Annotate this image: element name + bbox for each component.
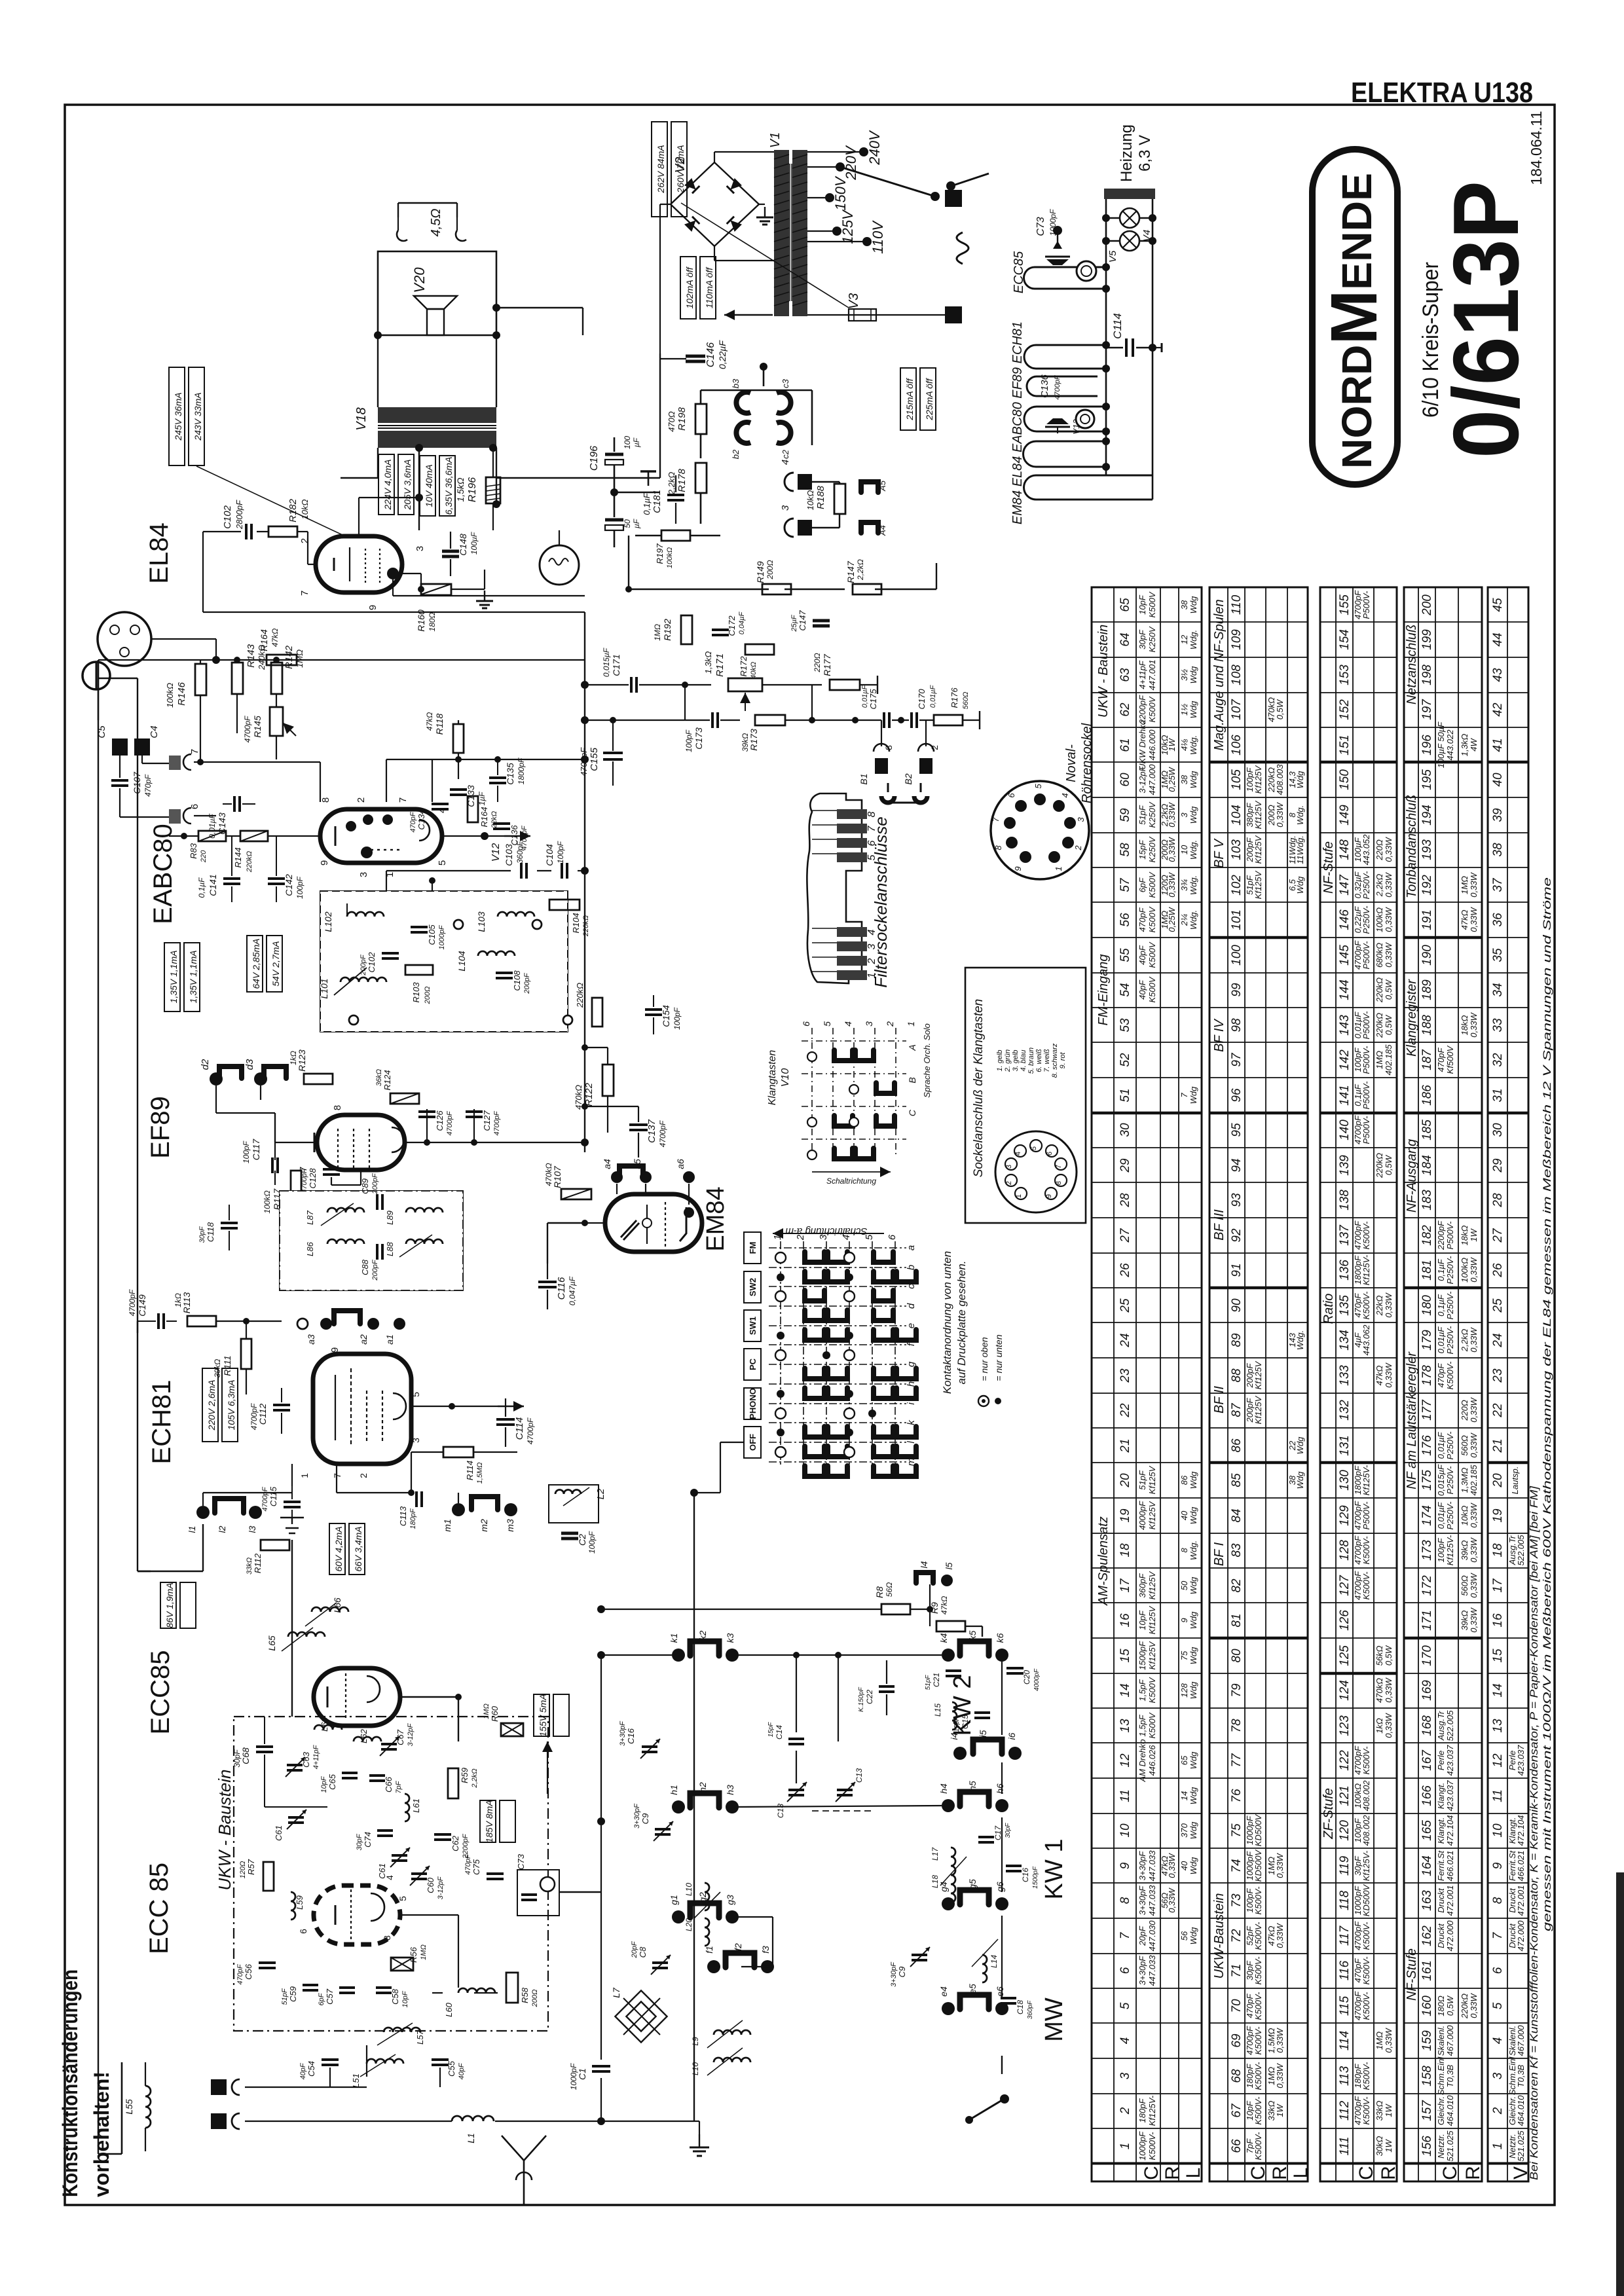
svg-text:K500V: K500V [1147,1712,1157,1738]
svg-text:12: 12 [1179,634,1189,644]
capacitor C136 4700pF [493,822,510,825]
capacitor C147 25uF [813,619,830,623]
svg-text:117: 117 [1338,1925,1352,1946]
svg-text:0,33W: 0,33W [1469,1256,1479,1282]
matrix contact [896,1427,916,1437]
svg-text:k6: k6 [995,1633,1005,1643]
svg-text:P250V-: P250V- [1445,1501,1455,1530]
svg-text:R149: R149 [755,561,766,583]
svg-text:30pF: 30pF [356,1833,363,1850]
svg-text:188: 188 [1420,1015,1434,1036]
svg-text:34: 34 [1491,983,1505,996]
cathode lamp circle [540,545,579,585]
svg-text:NF-Stufe: NF-Stufe [1405,1948,1419,2001]
svg-text:97: 97 [1230,1052,1244,1067]
svg-text:9: 9 [1045,1194,1053,1198]
resistor R147 2,2k [853,584,881,594]
svg-text:PC: PC [748,1358,758,1370]
svg-text:C102: C102 [367,952,377,973]
svg-text:1MΩ: 1MΩ [483,1704,490,1719]
transformer V1 core [789,164,790,301]
svg-text:168: 168 [1420,1715,1434,1736]
capacitor C56 470pF [259,1961,276,1964]
svg-text:124: 124 [1338,1680,1352,1701]
svg-text:R60: R60 [490,1705,500,1722]
matrix solder dot [868,1410,876,1417]
matrix contact [828,1271,847,1282]
svg-text:200pF: 200pF [371,1259,379,1281]
matrix contact [874,1310,893,1321]
svg-text:53: 53 [1118,1018,1132,1032]
svg-text:71: 71 [1230,1963,1244,1977]
capacitor C103 360pF [520,863,523,879]
svg-text:109: 109 [1230,629,1244,650]
svg-text:470pF: 470pF [464,1853,472,1874]
coil L65 [288,1632,325,1637]
svg-text:150V: 150V [832,175,849,211]
speaker V20 box [378,251,496,335]
noval pin 3 [1004,817,1016,829]
ferrite antenna L7 [615,1990,667,2042]
contact c3 [777,392,791,413]
svg-text:R198: R198 [676,407,688,431]
heater loop EABC80 [1024,407,1106,431]
svg-text:Netzanschluß: Netzanschluß [1405,625,1419,704]
matrix contact [874,1271,893,1282]
svg-text:39kΩ: 39kΩ [1460,1540,1469,1560]
svg-text:132: 132 [1338,1400,1352,1421]
svg-text:28: 28 [1118,1193,1132,1208]
dial lamp sym 4 [784,473,794,491]
wire ech to kw [202,1524,204,1571]
svg-text:Kf500V: Kf500V [1445,1045,1455,1074]
svg-text:MW: MW [1041,1997,1068,2042]
svg-text:1: 1 [1054,866,1063,871]
svg-text:113: 113 [1338,2066,1352,2086]
svg-text:186: 186 [1420,1085,1434,1106]
potentiometer R145 [270,707,283,736]
capacitor C59 51pF [303,1984,318,1986]
svg-text:18kΩ: 18kΩ [1460,1225,1469,1245]
svg-text:35: 35 [1491,948,1505,962]
svg-text:R57: R57 [246,1859,256,1875]
capacitor C108 200pF [496,972,513,974]
svg-text:447.000: 447.000 [1147,764,1157,795]
measurement 245V [169,367,185,465]
svg-text:100pF: 100pF [1436,1538,1446,1563]
svg-text:98: 98 [1230,1018,1244,1032]
svg-text:184.064.11: 184.064.11 [1528,111,1545,185]
svg-text:15pF: 15pF [1137,839,1147,860]
resistor R113 1kOhm [187,1316,216,1326]
svg-text:470kΩ: 470kΩ [544,1163,553,1186]
svg-text:7: 7 [299,591,310,596]
svg-text:6,35V 36,6mA: 6,35V 36,6mA [443,457,454,515]
wire grid row [169,835,198,837]
coil L61 [405,1794,409,1821]
capacitor C155 4700pF [603,752,623,754]
svg-text:C75: C75 [471,1859,481,1875]
svg-text:93: 93 [1230,1193,1244,1207]
svg-text:260V 70mA: 260V 70mA [675,145,686,193]
klangtasten pin 4 [1014,1145,1026,1157]
svg-text:ZF-Stufe: ZF-Stufe [1321,1788,1336,1840]
svg-text:171: 171 [1420,1610,1434,1631]
svg-text:33kΩ: 33kΩ [246,1558,253,1575]
svg-text:6: 6 [298,1929,308,1934]
svg-text:32: 32 [1491,1053,1505,1067]
svg-text:200pF: 200pF [360,954,367,975]
output transformer core [378,425,496,426]
svg-text:Wdg: Wdg [1189,1647,1198,1665]
svg-text:5: 5 [1033,784,1043,789]
contacts g1 g2 g3 [672,1910,685,1923]
svg-text:NF-Ausgang: NF-Ausgang [1405,1139,1419,1212]
svg-text:3: 3 [1005,1165,1013,1169]
svg-text:40: 40 [1179,1861,1189,1870]
svg-text:14: 14 [1491,1683,1505,1697]
svg-text:C63: C63 [301,1751,311,1768]
svg-text:K500V-: K500V- [1361,1536,1371,1565]
svg-text:0,5W: 0,5W [1445,1995,1455,2016]
matrix solder dot [777,1332,784,1339]
svg-text:1MΩ: 1MΩ [1375,1051,1384,1069]
svg-text:8: 8 [993,845,1003,850]
wire matrix to nf [720,1442,744,1443]
svg-text:Kf125V: Kf125V [1147,1465,1157,1494]
svg-text:R111: R111 [222,1355,232,1376]
svg-text:423.037: 423.037 [1445,1745,1455,1776]
svg-text:Wdg.: Wdg. [1189,840,1198,860]
coil L60 [458,1988,495,1993]
svg-text:15: 15 [1491,1649,1505,1663]
piano key 2 [837,956,867,966]
svg-text:139: 139 [1338,1155,1352,1176]
svg-text:L59: L59 [295,1895,304,1910]
svg-text:C115: C115 [268,1486,278,1506]
svg-text:54: 54 [1118,983,1132,996]
wire ech right to em84 [547,1223,548,1264]
svg-text:5: 5 [411,1392,421,1397]
svg-text:R177: R177 [822,653,832,676]
svg-text:C134: C134 [416,809,426,829]
NORDMENDE logo [1312,149,1397,484]
svg-text:R104: R104 [571,913,581,933]
klangtasten pin 7 [1055,1158,1067,1170]
svg-text:470pF: 470pF [1436,1363,1446,1388]
svg-text:P500V-: P500V- [1361,591,1371,619]
svg-text:Wdg: Wdg [1189,1787,1198,1805]
matrix contact [874,1446,893,1457]
coil L9 L10b [714,2030,750,2035]
svg-text:10: 10 [1118,1823,1132,1838]
svg-text:C141: C141 [208,874,218,896]
mains tap 150V [807,197,830,198]
svg-text:3¾: 3¾ [1179,879,1189,891]
capacitor C154 100pF [645,1008,662,1011]
svg-text:Wdg: Wdg [1189,1857,1198,1875]
svg-text:C126: C126 [435,1110,445,1131]
svg-text:Wdg: Wdg [1189,701,1198,719]
svg-text:3: 3 [864,1021,874,1027]
svg-text:L10: L10 [684,1883,693,1896]
svg-text:P500V-: P500V- [1361,1011,1371,1040]
capacitor C105 1000pF [411,926,428,928]
svg-text:1MΩ: 1MΩ [1460,876,1469,894]
svg-text:130: 130 [1338,1470,1352,1491]
tube ECC85 lower triode [314,1886,400,1944]
svg-text:d3: d3 [244,1059,255,1070]
capacitor C102 2800pF [245,524,248,539]
svg-text:UKW - Baustein: UKW - Baustein [215,1770,234,1891]
svg-text:224V 4,0mA: 224V 4,0mA [382,459,393,510]
wire lower psu [686,589,687,615]
matrix via [775,1252,786,1263]
svg-text:0,33W: 0,33W [1384,1677,1393,1702]
matrix contact [805,1271,824,1282]
svg-text:20: 20 [1118,1473,1132,1488]
svg-text:470pF: 470pF [236,1963,244,1984]
parts table group 1 (UKW-Baustein / FM-Eingang / AM-Spulensatz, C R L rows 1-65) [1092,587,1202,2164]
resistor R123 1kOhm [304,1074,333,1084]
svg-text:C66: C66 [384,1776,394,1793]
svg-text:f3: f3 [760,1946,771,1954]
svg-text:3: 3 [358,872,369,877]
svg-text:120Ω: 120Ω [239,1861,247,1879]
svg-text:180pF: 180pF [1137,2098,1147,2123]
svg-text:8: 8 [866,811,877,817]
matrix contact [828,1368,847,1379]
svg-text:423.037: 423.037 [1445,1780,1455,1812]
svg-text:75: 75 [1230,1823,1244,1838]
svg-text:36kΩ: 36kΩ [375,1069,383,1086]
svg-text:C149: C149 [137,1294,147,1317]
svg-text:L20: L20 [684,1918,693,1931]
svg-text:Wdg: Wdg [1295,876,1305,894]
svg-text:KD500V: KD500V [1361,1884,1371,1916]
svg-text:C: C [1247,2166,1269,2180]
matrix contact [874,1368,893,1379]
svg-text:0,1µF: 0,1µF [1436,1294,1446,1317]
svg-text:1MΩ: 1MΩ [653,624,662,641]
svg-text:40pF: 40pF [299,2062,307,2079]
svg-text:55: 55 [1118,948,1132,962]
capacitor C112 4700pF [273,1404,290,1406]
svg-text:C170: C170 [917,689,927,710]
svg-text:K500V-: K500V- [1147,2132,1157,2160]
wire xfrmr bottom left [377,448,378,478]
capacitor C17 30pF [978,1836,994,1838]
svg-text:9: 9 [329,1347,341,1353]
svg-text:30pF: 30pF [1005,1823,1012,1838]
matrix via [775,1350,786,1360]
svg-text:111: 111 [1338,2137,1352,2156]
svg-text:K500V-: K500V- [1361,1956,1371,1985]
svg-text:K500V: K500V [1147,871,1157,898]
svg-text:40: 40 [1491,773,1505,787]
matrix via [844,1252,855,1263]
svg-text:142: 142 [1338,1049,1352,1070]
svg-text:K500V: K500V [1147,906,1157,932]
svg-text:Noval-: Noval- [1064,744,1079,782]
svg-text:C62: C62 [451,1835,460,1851]
wire c196 [614,482,616,504]
svg-text:C73: C73 [1035,217,1046,236]
svg-text:R112: R112 [253,1553,263,1573]
UKW box dash-dot border [234,1717,548,2031]
svg-text:360pF: 360pF [1137,1573,1147,1598]
svg-text:Gleichr.: Gleichr. [1436,2096,1446,2125]
antenna input terminals [211,2079,227,2095]
capacitor C102b 200pF [382,952,399,955]
svg-text:C57: C57 [325,1988,335,2005]
svg-text:157: 157 [1420,2100,1434,2121]
svg-text:1000pF: 1000pF [438,924,446,950]
svg-text:2: 2 [1073,845,1083,851]
svg-text:90: 90 [1230,1298,1244,1313]
coil L88 [406,1239,443,1244]
svg-text:Perle: Perle [1436,1751,1446,1770]
svg-text:R118: R118 [434,714,445,735]
svg-text:10pF: 10pF [1137,594,1147,615]
svg-text:5: 5 [1491,2002,1505,2009]
svg-text:NF am Lautstärkeregler: NF am Lautstärkeregler [1405,1351,1419,1489]
wire em84 top [584,1222,585,1224]
heater rail left [1105,199,1107,475]
svg-text:d2: d2 [200,1059,211,1070]
contacts g4 g5 g6 [942,1897,955,1910]
svg-text:151: 151 [1338,735,1352,756]
svg-text:1000pF: 1000pF [569,2063,578,2090]
svg-text:64: 64 [1118,632,1132,646]
svg-text:P500V-: P500V- [1361,1081,1371,1110]
svg-text:560Ω: 560Ω [1460,1435,1469,1456]
capacitor C14 15pF [788,1738,804,1740]
svg-text:145: 145 [1338,945,1352,966]
svg-text:220Ω: 220Ω [813,653,822,672]
svg-text:g5: g5 [967,1879,978,1889]
svg-text:160: 160 [1420,1995,1434,2016]
svg-text:R160: R160 [416,610,426,632]
svg-text:V1: V1 [768,132,783,148]
capacitor C181 0,1uF [667,494,684,496]
capacitor C146 0,22uF [686,355,705,358]
tonband bracket [881,796,895,803]
svg-text:1,5pF: 1,5pF [1137,1679,1147,1701]
coil L1 [452,2116,494,2121]
wire speaker left [377,335,378,407]
svg-text:447.033: 447.033 [1147,1850,1157,1882]
svg-text:2: 2 [1118,2107,1132,2115]
svg-text:i5: i5 [978,1730,988,1737]
klangtasten contact [876,1083,895,1093]
wire volume row [812,720,881,721]
svg-text:L7: L7 [611,1987,621,1998]
svg-text:220kΩ: 220kΩ [1375,977,1384,1003]
svg-text:Wdg: Wdg [1189,771,1198,789]
wire input bus [151,638,216,640]
svg-text:107: 107 [1230,699,1244,720]
wire table link [694,1492,720,1493]
svg-text:h1: h1 [669,1785,679,1795]
svg-text:196: 196 [1420,735,1434,756]
junction [415,444,423,452]
svg-text:100kΩ: 100kΩ [1375,907,1384,932]
junction [597,1605,605,1613]
svg-text:23: 23 [1118,1368,1132,1383]
svg-text:24: 24 [1491,1333,1505,1347]
svg-text:K500V: K500V [1147,1677,1157,1703]
parts table group 2 (Mag.Auge/BF I-V, rows 66-110) [1209,587,1308,2164]
contact b2 [736,422,750,443]
svg-text:Skalenl.: Skalenl. [1436,2026,1446,2056]
svg-text:40pF: 40pF [1137,979,1147,1000]
svg-text:0,33W: 0,33W [1469,906,1479,932]
svg-text:Bei Kondensatoren Kf = Kunsts: Bei Kondensatoren Kf = Kunststofffolien-… [1528,1485,1540,2180]
svg-text:0,1µF: 0,1µF [1436,1258,1446,1281]
svg-text:C104: C104 [544,844,555,866]
matrix contact [828,1330,847,1340]
svg-text:154: 154 [1338,629,1352,650]
svg-text:370: 370 [1179,1823,1189,1837]
wire ratio box [386,871,387,891]
svg-text:m3: m3 [505,1519,515,1532]
svg-text:3-12pF: 3-12pF [1137,765,1147,793]
svg-text:1000pF: 1000pF [1137,2131,1147,2160]
svg-text:470pF: 470pF [143,774,153,797]
matrix via [844,1350,855,1360]
svg-text:0,33W: 0,33W [1167,801,1177,827]
contacts a-row [320,1318,332,1330]
svg-text:466.021: 466.021 [1516,1851,1526,1882]
svg-text:95: 95 [1230,1123,1244,1137]
svg-text:l: l [906,1441,917,1444]
svg-text:FM: FM [748,1242,758,1254]
svg-text:192: 192 [1420,875,1434,896]
svg-text:Netztr.: Netztr. [1436,2134,1446,2159]
svg-text:220kΩ: 220kΩ [575,983,585,1008]
svg-text:0,5W: 0,5W [1384,1014,1393,1035]
svg-text:Klangtasten: Klangtasten [767,1050,778,1106]
tuning eye sym [1077,261,1096,281]
svg-text:B2: B2 [903,773,913,784]
svg-text:C74: C74 [363,1832,373,1848]
svg-text:72: 72 [1230,1929,1244,1943]
svg-text:C128: C128 [308,1168,318,1189]
capacitor C118 30pF [221,1222,238,1224]
klangtasten contact [855,1148,874,1159]
svg-text:39kΩ: 39kΩ [1460,1610,1469,1630]
svg-text:105: 105 [1230,769,1244,790]
svg-text:155: 155 [1338,594,1352,615]
svg-text:60: 60 [1118,773,1132,787]
svg-text:240V: 240V [866,130,883,166]
matrix contact [805,1368,824,1379]
svg-text:C135: C135 [505,763,515,785]
svg-text:57: 57 [1118,877,1132,892]
svg-text:0,33W: 0,33W [1275,1922,1285,1948]
svg-text:19: 19 [1491,1508,1505,1523]
svg-text:C155: C155 [589,747,600,771]
svg-text:C113: C113 [398,1506,408,1526]
contacts e4 e5 e6 [942,2002,955,2015]
svg-text:EL84: EL84 [145,522,174,583]
wire pointer 245V [196,466,344,536]
capacitor C133 1uF [450,788,467,791]
junction [597,1651,605,1659]
svg-text:1kΩ: 1kΩ [174,1293,183,1307]
svg-text:0,01µF: 0,01µF [1436,1432,1446,1459]
